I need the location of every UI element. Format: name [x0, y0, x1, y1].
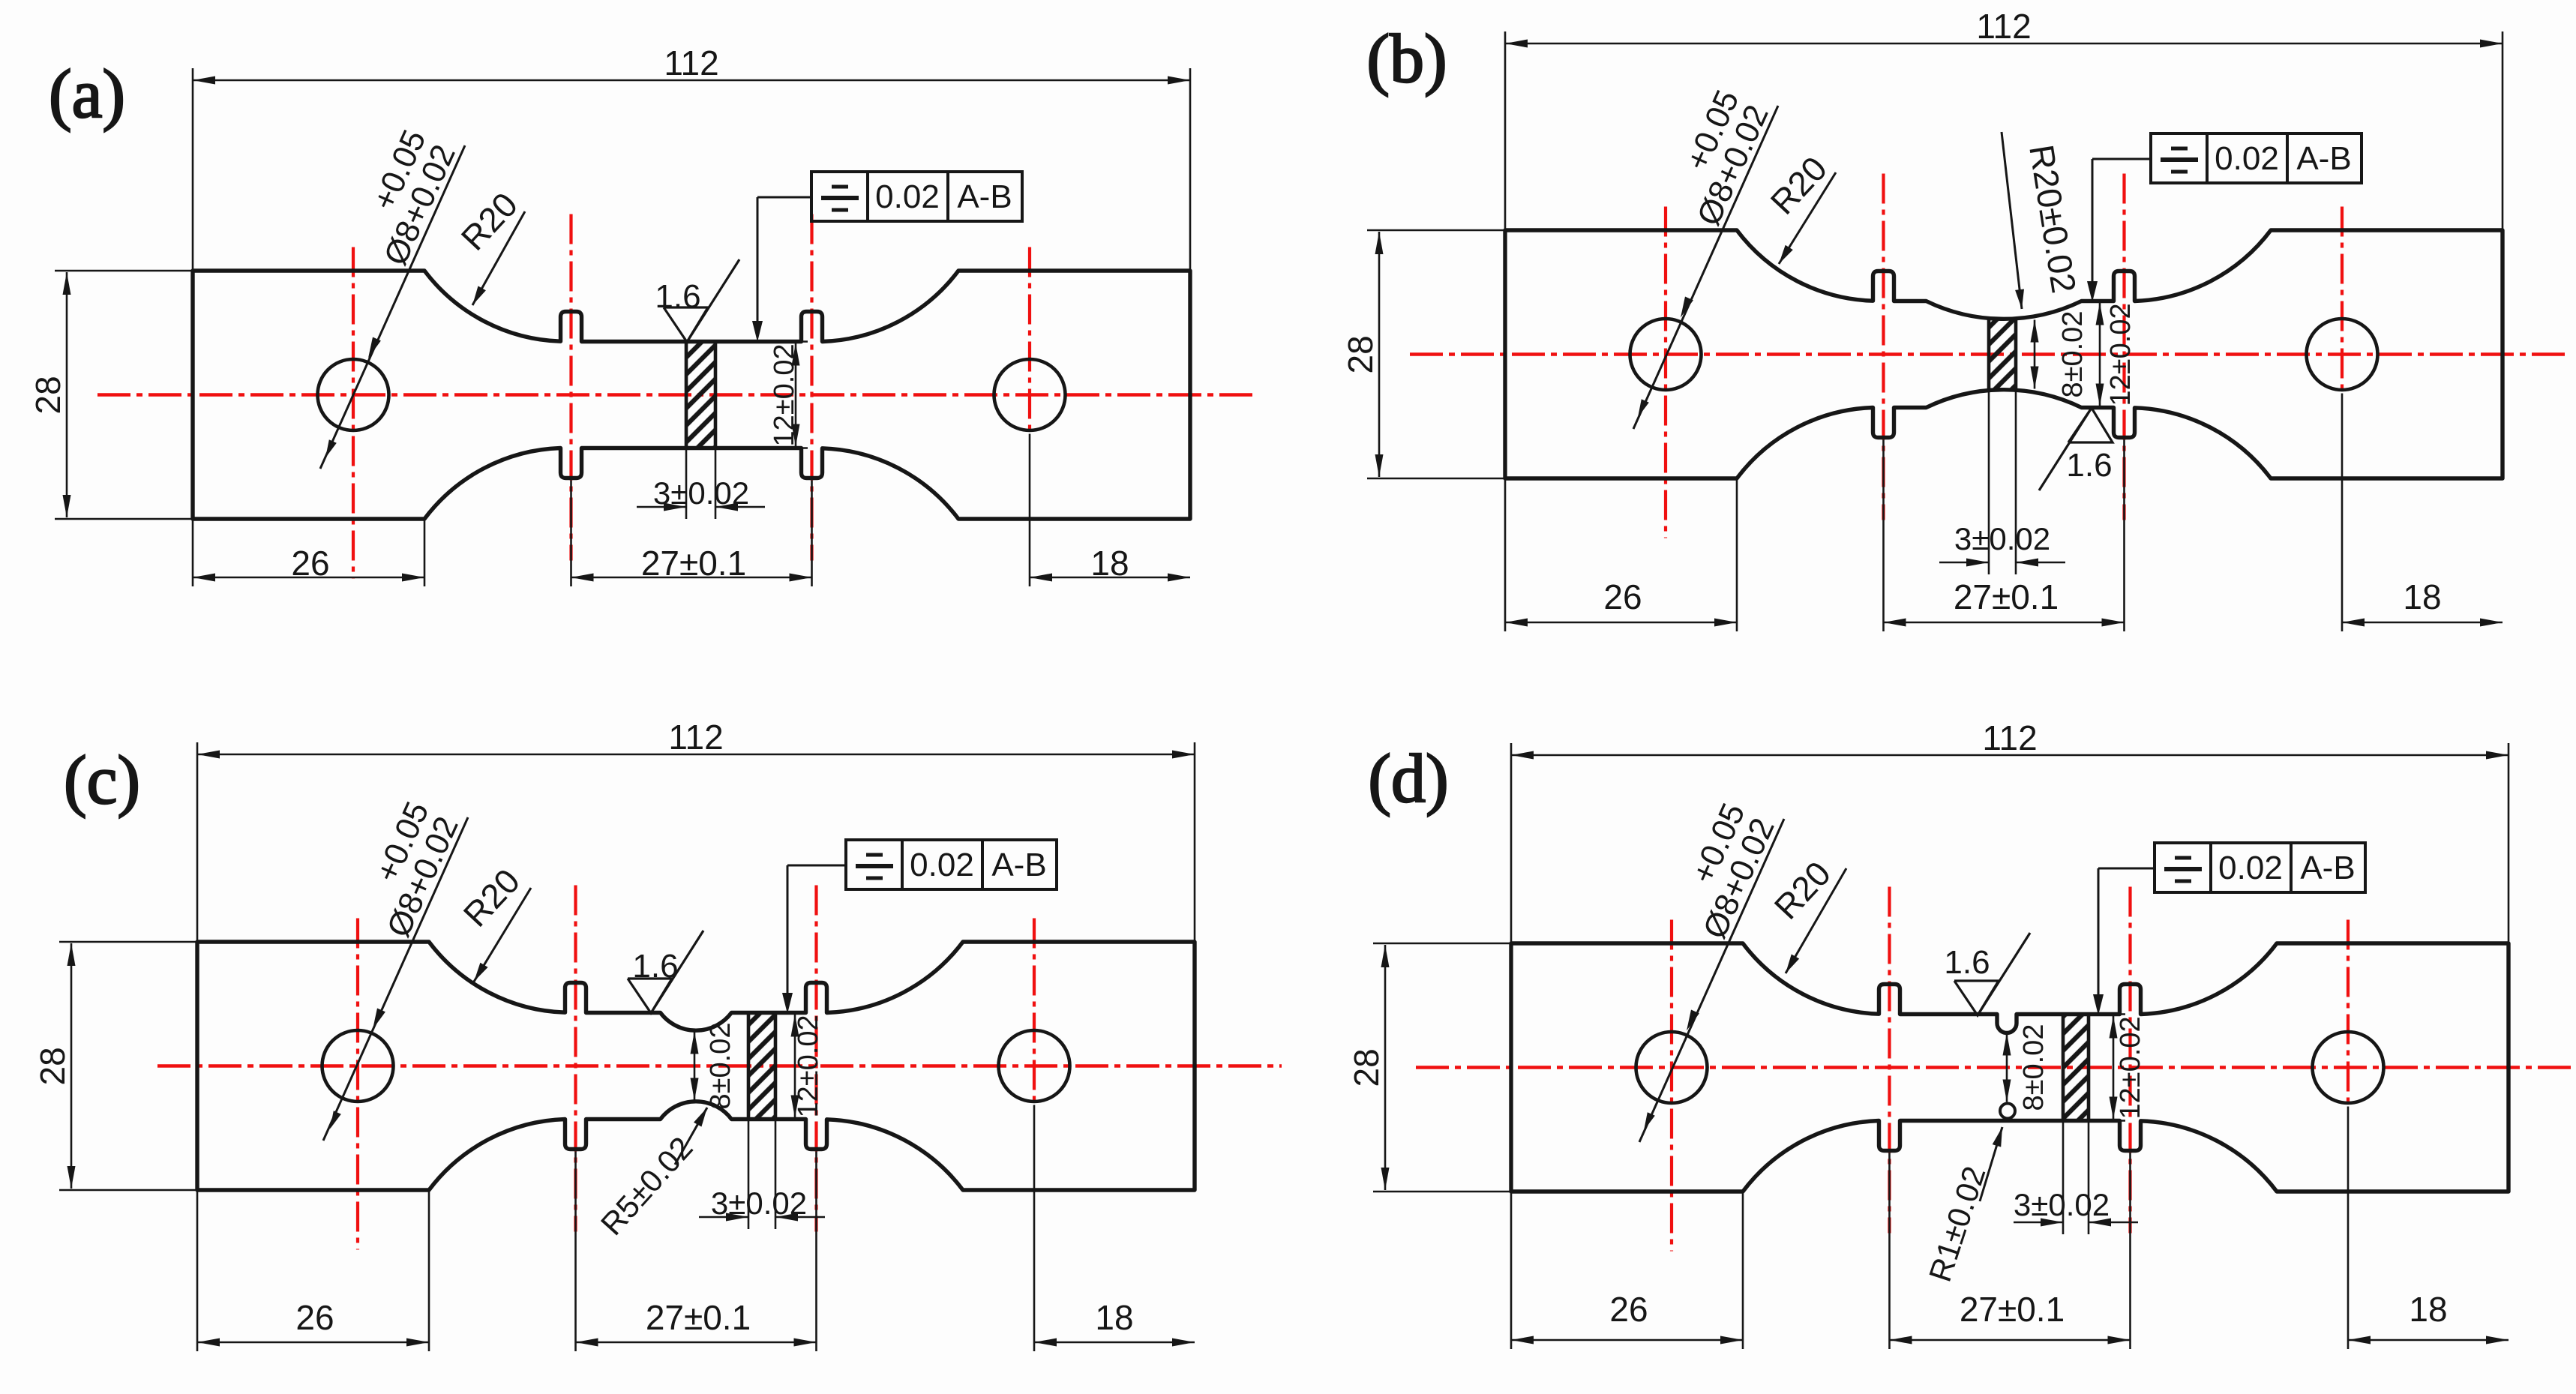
- svg-text:1.6: 1.6: [632, 948, 678, 985]
- hole diameter leader Ø8 (a): [320, 145, 465, 469]
- dim 8±0.02 (b): [2034, 320, 2036, 389]
- hatched section strip (d): [2063, 1015, 2089, 1121]
- specimen outline (d): [1511, 943, 2509, 1192]
- svg-text:28: 28: [28, 376, 67, 414]
- right grip hole (a): [994, 359, 1066, 430]
- dim 112 (c): [196, 742, 199, 942]
- svg-text:112: 112: [668, 718, 723, 757]
- specimen outline (a): [193, 271, 1190, 519]
- svg-text:3±0.02: 3±0.02: [653, 475, 749, 511]
- dim 26 (d): [1510, 1192, 1513, 1349]
- parallelism feature control frame (c): [846, 840, 1057, 889]
- dim 26 (c): [196, 1190, 199, 1351]
- svg-text:0.02: 0.02: [910, 847, 974, 883]
- red horizontal centerline (c): [157, 1064, 1282, 1068]
- svg-text:27±0.1: 27±0.1: [641, 544, 746, 583]
- surface roughness symbol 1.6 (d): [1954, 933, 2030, 1015]
- dim 26 (a): [192, 519, 194, 586]
- hole diameter leader Ø8 (b): [1633, 106, 1778, 429]
- parallelism feature control frame (d): [2155, 843, 2365, 892]
- dim 3±0.02 (c): [748, 1120, 750, 1230]
- svg-text:27±0.1: 27±0.1: [1960, 1290, 2065, 1329]
- red gauge mark centerline left (d): [1888, 887, 1891, 1234]
- frame leader arrow (a): [757, 196, 811, 199]
- red gauge mark centerline right (b): [2122, 174, 2125, 520]
- parallelism feature control frame (b): [2151, 133, 2362, 183]
- dim 26 (b): [1504, 478, 1507, 631]
- svg-text:8±0.02: 8±0.02: [2018, 1024, 2050, 1111]
- svg-text:(a): (a): [49, 55, 125, 132]
- red gauge mark centerline left (b): [1882, 174, 1885, 520]
- red vertical centerline right hole (c): [1033, 919, 1036, 1105]
- svg-text:A-B: A-B: [991, 847, 1046, 883]
- svg-text:3±0.02: 3±0.02: [1954, 521, 2050, 556]
- red gauge mark centerline right (c): [814, 886, 817, 1232]
- svg-text:(c): (c): [64, 742, 140, 818]
- red horizontal centerline (b): [1410, 352, 2566, 356]
- red vertical centerline right hole (a): [1028, 247, 1031, 434]
- svg-text:28: 28: [1347, 1048, 1386, 1087]
- red vertical centerline left hole (b): [1664, 207, 1667, 538]
- svg-text:8±0.02: 8±0.02: [2057, 311, 2089, 398]
- svg-text:112: 112: [1976, 7, 2031, 46]
- dim 12±0.02 (c): [778, 1012, 807, 1014]
- dim 27±0.1 (c): [574, 1152, 577, 1352]
- svg-text:12±0.02: 12±0.02: [793, 1015, 824, 1117]
- dim 12±0.02 (b): [2099, 303, 2101, 406]
- hatched section strip (a): [686, 342, 715, 448]
- dim 18 (b): [2341, 394, 2344, 632]
- dim 112 (d): [1510, 743, 1513, 943]
- right grip hole (c): [999, 1030, 1070, 1102]
- svg-text:12±0.02: 12±0.02: [2105, 303, 2137, 406]
- dim 3±0.02 (a): [685, 448, 688, 520]
- left grip hole (d): [1636, 1032, 1708, 1103]
- right grip hole (b): [2307, 319, 2378, 390]
- svg-text:112: 112: [1982, 718, 2037, 757]
- svg-text:3±0.02: 3±0.02: [2014, 1187, 2110, 1222]
- red horizontal centerline (a): [97, 393, 1254, 397]
- red vertical centerline right hole (b): [2341, 207, 2344, 394]
- svg-text:18: 18: [2409, 1290, 2447, 1329]
- dim 27±0.1 (b): [1882, 440, 1885, 632]
- frame leader arrow (d): [2098, 868, 2155, 870]
- right grip hole (d): [2313, 1032, 2384, 1103]
- dim 3±0.02 (d): [2062, 1121, 2065, 1235]
- svg-text:28: 28: [33, 1047, 72, 1085]
- svg-text:1.6: 1.6: [1944, 944, 1990, 981]
- dim 3±0.02 (b): [1988, 390, 1990, 574]
- svg-text:A-B: A-B: [957, 178, 1012, 215]
- specimen outline (c): [197, 942, 1195, 1190]
- red vertical centerline left hole (d): [1670, 920, 1673, 1252]
- left grip hole (c): [322, 1030, 394, 1102]
- hole diameter text (d): [1666, 798, 1783, 944]
- hole diameter text (a): [347, 124, 463, 271]
- surface roughness symbol 1.6 (b): [2039, 408, 2113, 490]
- specimen outline (b): [1505, 230, 2503, 478]
- svg-text:3±0.02: 3±0.02: [711, 1186, 807, 1221]
- svg-text:26: 26: [295, 1298, 334, 1337]
- red vertical centerline left hole (c): [356, 919, 359, 1250]
- hole diameter text (b): [1660, 85, 1777, 231]
- dim 28 (b): [1367, 229, 1505, 232]
- dim 18 (c): [1033, 1105, 1036, 1352]
- dim 28 (c): [59, 941, 197, 943]
- svg-text:28: 28: [1341, 335, 1380, 373]
- dim 12±0.02 (a): [718, 340, 808, 343]
- dim 28 (d): [1373, 943, 1511, 945]
- svg-text:1.6: 1.6: [2066, 447, 2112, 484]
- svg-text:8±0.02: 8±0.02: [705, 1023, 736, 1110]
- red gauge mark centerline right (a): [810, 214, 813, 561]
- svg-text:(d): (d): [1368, 740, 1448, 817]
- svg-text:18: 18: [2403, 577, 2441, 616]
- dim 28 (a): [55, 270, 193, 272]
- dim 112 (a): [192, 68, 194, 271]
- svg-text:112: 112: [664, 43, 718, 82]
- svg-text:26: 26: [1603, 577, 1642, 616]
- red gauge mark centerline left (a): [569, 214, 572, 561]
- hole diameter leader Ø8 (d): [1639, 819, 1784, 1142]
- surface roughness symbol 1.6 (c): [628, 931, 703, 1013]
- dim 27±0.1 (a): [570, 481, 572, 587]
- dim 112 (b): [1504, 31, 1507, 230]
- left grip hole (b): [1630, 319, 1702, 390]
- red horizontal centerline (d): [1416, 1066, 2572, 1069]
- R1 notch circle bottom edge (d): [2000, 1104, 2015, 1119]
- frame leader arrow (b): [2092, 158, 2151, 160]
- red gauge mark centerline right (d): [2128, 887, 2131, 1234]
- svg-text:12±0.02: 12±0.02: [769, 343, 800, 446]
- hole diameter leader Ø8 (c): [323, 817, 468, 1141]
- left grip hole (a): [318, 359, 389, 430]
- svg-text:18: 18: [1095, 1298, 1133, 1337]
- dim 18 (d): [2347, 1107, 2350, 1350]
- dim 8±0.02 (d): [2006, 1033, 2008, 1102]
- hole diameter text (c): [350, 796, 466, 943]
- svg-text:0.02: 0.02: [2218, 850, 2283, 886]
- parallelism feature control frame (a): [811, 172, 1022, 221]
- svg-text:18: 18: [1090, 544, 1129, 583]
- svg-text:0.02: 0.02: [875, 178, 940, 215]
- svg-text:27±0.1: 27±0.1: [1954, 577, 2059, 616]
- svg-text:A-B: A-B: [2300, 850, 2355, 886]
- red gauge mark centerline left (c): [574, 886, 577, 1232]
- dim 18 (a): [1029, 434, 1031, 587]
- svg-text:A-B: A-B: [2296, 140, 2351, 177]
- svg-text:1.6: 1.6: [655, 278, 700, 315]
- svg-text:0.02: 0.02: [2215, 140, 2279, 177]
- svg-text:26: 26: [1609, 1290, 1648, 1329]
- hatched section strip (c): [748, 1013, 775, 1120]
- svg-text:12±0.02: 12±0.02: [2115, 1016, 2146, 1119]
- hatched section strip (b): [1989, 319, 2016, 390]
- dim 27±0.1 (d): [1888, 1153, 1891, 1350]
- dim 12±0.02 (d): [2092, 1013, 2125, 1015]
- frame leader arrow (c): [787, 865, 846, 867]
- surface roughness symbol 1.6 (a): [664, 259, 739, 342]
- svg-text:26: 26: [291, 544, 329, 583]
- red vertical centerline right hole (d): [2347, 920, 2350, 1107]
- svg-text:27±0.1: 27±0.1: [646, 1298, 751, 1337]
- dim 8±0.02 (c): [694, 1032, 696, 1101]
- svg-text:(b): (b): [1366, 20, 1447, 97]
- red vertical centerline left hole (a): [352, 247, 355, 579]
